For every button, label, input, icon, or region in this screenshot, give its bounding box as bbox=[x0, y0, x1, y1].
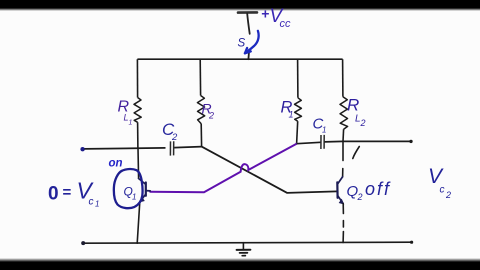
wire: R2 branch top bbox=[199, 59, 201, 95]
svg-text:1: 1 bbox=[132, 193, 136, 202]
svg-text:c: c bbox=[89, 197, 94, 208]
annotation: on label bbox=[109, 158, 123, 170]
wire: RL2 bottom to node bbox=[342, 129, 345, 141]
label RL2 bbox=[347, 96, 366, 129]
wire: cross-couple purple from Q1 base to R1 node with hop loop bbox=[150, 144, 296, 193]
svg-text:off: off bbox=[365, 179, 391, 199]
label Q2 off bbox=[347, 179, 392, 202]
label R1 bbox=[281, 99, 294, 120]
resistor RL1 bbox=[134, 98, 141, 123]
wire: C1 to RL2 node bbox=[325, 140, 343, 143]
node: right output terminal dot bbox=[409, 140, 412, 143]
wire: R2 bottom to node bbox=[200, 124, 202, 147]
transistor Q1 bbox=[137, 148, 150, 243]
capacitor C2 bbox=[170, 141, 173, 155]
node: left output terminal dot bbox=[80, 147, 84, 151]
wire: top supply rail bbox=[137, 58, 342, 60]
node: bottom-right terminal dot bbox=[410, 241, 413, 244]
label Vc2 bbox=[428, 165, 451, 200]
stray slash mark bbox=[353, 147, 360, 159]
wire: RL2 branch top bbox=[342, 59, 344, 96]
wire: R1 node to C1 bbox=[297, 142, 321, 143]
wire: RL1 to Q1 collector node bbox=[137, 122, 139, 148]
power terminal +Vcc bbox=[238, 12, 257, 59]
svg-text:S: S bbox=[238, 38, 246, 50]
svg-text:1: 1 bbox=[95, 200, 99, 209]
svg-text:cc: cc bbox=[280, 18, 292, 30]
svg-text:1: 1 bbox=[322, 126, 326, 135]
label C2 bbox=[162, 120, 178, 143]
resistor RL2 bbox=[340, 97, 348, 130]
svg-text:2: 2 bbox=[208, 111, 214, 121]
resistor R1 bbox=[295, 98, 302, 121]
label 0 = Vc1 bbox=[48, 178, 99, 209]
svg-text:on: on bbox=[109, 158, 123, 170]
svg-text:2: 2 bbox=[357, 192, 363, 202]
resistor R2 bbox=[197, 96, 204, 124]
node: bottom-left terminal dot bbox=[81, 241, 85, 245]
svg-text:+: + bbox=[261, 6, 269, 22]
wire: C2 to R2 node bbox=[174, 147, 201, 148]
capacitor C1 bbox=[321, 135, 324, 149]
label RL1 bbox=[118, 99, 133, 127]
transistor Q2 with dashed collector/emitter wires bbox=[337, 141, 343, 242]
label C1 bbox=[313, 116, 327, 135]
switch arrow annotation bbox=[245, 31, 259, 54]
svg-text:c: c bbox=[440, 185, 445, 196]
svg-text:=: = bbox=[63, 184, 72, 201]
svg-text:2: 2 bbox=[445, 190, 451, 200]
label Q1 bbox=[124, 185, 137, 202]
svg-text:R: R bbox=[347, 96, 359, 115]
wire: RL1 branch top bbox=[136, 59, 138, 97]
wire: R1 branch top bbox=[297, 59, 299, 98]
svg-text:0: 0 bbox=[48, 184, 59, 205]
wire: RL2 node to right terminal bbox=[343, 140, 411, 142]
ground bbox=[237, 243, 251, 256]
label R2 bbox=[202, 101, 215, 121]
svg-text:2: 2 bbox=[360, 118, 366, 128]
label +Vcc bbox=[261, 6, 291, 31]
wire: R1 bottom to node bbox=[297, 121, 298, 144]
wire: left output line to C2 bbox=[85, 148, 166, 149]
wire: cross-couple black diagonal R2 node to Q2 base bbox=[202, 147, 337, 193]
svg-text:1: 1 bbox=[289, 110, 294, 120]
annotation: circle around Q1 bbox=[114, 169, 143, 208]
svg-text:2: 2 bbox=[171, 132, 178, 143]
wire: bottom ground rail bbox=[83, 242, 412, 243]
svg-text:1: 1 bbox=[129, 120, 133, 127]
